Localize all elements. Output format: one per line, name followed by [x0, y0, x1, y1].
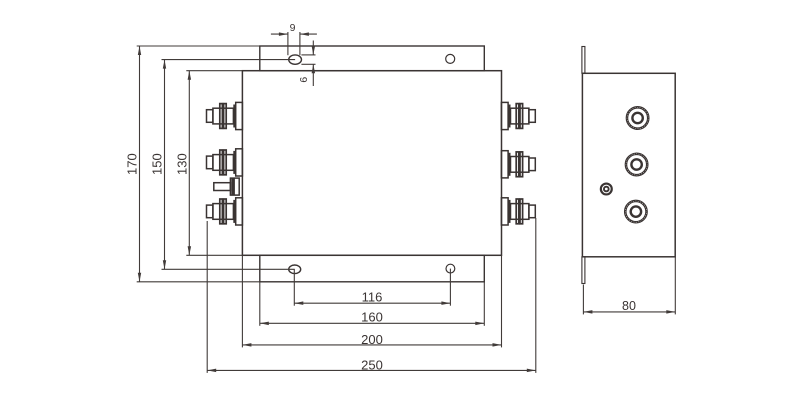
svg-text:200: 200: [361, 332, 383, 347]
svg-text:250: 250: [361, 357, 383, 372]
svg-text:130: 130: [175, 153, 190, 175]
svg-text:150: 150: [150, 153, 165, 175]
svg-text:116: 116: [362, 290, 383, 305]
svg-text:80: 80: [622, 299, 636, 313]
svg-text:170: 170: [124, 153, 139, 175]
svg-text:6: 6: [298, 77, 310, 83]
svg-text:9: 9: [290, 22, 296, 34]
svg-text:160: 160: [361, 310, 383, 325]
